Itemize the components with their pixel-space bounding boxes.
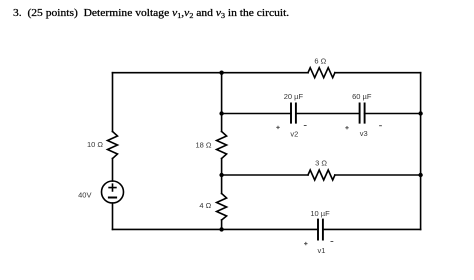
- svg-text:40V: 40V: [78, 191, 91, 200]
- capacitor C 60uF plates: [360, 103, 365, 122]
- wire left rail lower: [112, 203, 114, 229]
- svg-text:4 Ω: 4 Ω: [199, 201, 211, 210]
- wire bottom rail right of cap: [323, 228, 421, 230]
- polarity plus v1: [304, 242, 307, 245]
- wire row2 middle segment: [296, 113, 360, 115]
- svg-text:v2: v2: [290, 130, 298, 139]
- voltage source V 40V circle: [102, 181, 124, 203]
- svg-text:v3: v3: [360, 129, 368, 138]
- polarity plus v2: [276, 126, 279, 129]
- svg-text:6 Ω: 6 Ω: [314, 56, 326, 65]
- svg-text:18 Ω: 18 Ω: [195, 141, 211, 150]
- svg-text:10 Ω: 10 Ω: [87, 140, 103, 149]
- junction node top middle: [219, 71, 223, 75]
- junction node row2 left: [219, 111, 223, 115]
- voltage source minus sign: [109, 197, 116, 199]
- capacitor C 10uF plates: [318, 220, 323, 240]
- junction node row2 right: [418, 111, 422, 115]
- svg-text:3 Ω: 3 Ω: [315, 159, 327, 168]
- wire row3 left segment: [222, 174, 308, 176]
- title text: [13, 8, 289, 19]
- resistor R 6ohm zigzag: [308, 68, 335, 78]
- junction node bottom middle: [219, 227, 223, 231]
- svg-text:60 µF: 60 µF: [352, 92, 372, 101]
- voltage source plus sign: [109, 184, 116, 191]
- wire bottom rail left of cap: [113, 228, 319, 230]
- wire top rail left segment: [113, 72, 309, 74]
- polarity minus v1: [331, 241, 334, 243]
- resistor R 3ohm zigzag: [308, 170, 335, 180]
- wire top rail right segment: [335, 72, 421, 74]
- wire middle rail between 18ohm and node: [221, 159, 223, 194]
- junction node row3 left: [219, 173, 223, 177]
- svg-text:10 µF: 10 µF: [310, 209, 330, 218]
- polarity minus v3: [379, 125, 382, 127]
- wire left rail between resistor and source: [112, 159, 114, 182]
- wire left rail upper: [112, 73, 114, 132]
- polarity minus v2: [304, 125, 307, 127]
- wire middle rail bottom: [221, 220, 223, 229]
- wire row2 left segment: [222, 113, 291, 115]
- wire row3 right segment: [335, 174, 421, 176]
- capacitor C 20uF plates: [291, 103, 296, 122]
- wire middle rail top: [221, 73, 223, 132]
- polarity plus v3: [345, 126, 348, 129]
- resistor R 4ohm zigzag: [217, 194, 227, 221]
- svg-text:20 µF: 20 µF: [284, 92, 304, 101]
- wire right rail: [420, 73, 422, 230]
- resistor R 18ohm zigzag: [217, 132, 227, 159]
- junction node row3 right: [418, 173, 422, 177]
- svg-text:v1: v1: [318, 246, 326, 255]
- wire row2 right segment: [365, 113, 421, 115]
- resistor R 10ohm zigzag: [108, 132, 118, 159]
